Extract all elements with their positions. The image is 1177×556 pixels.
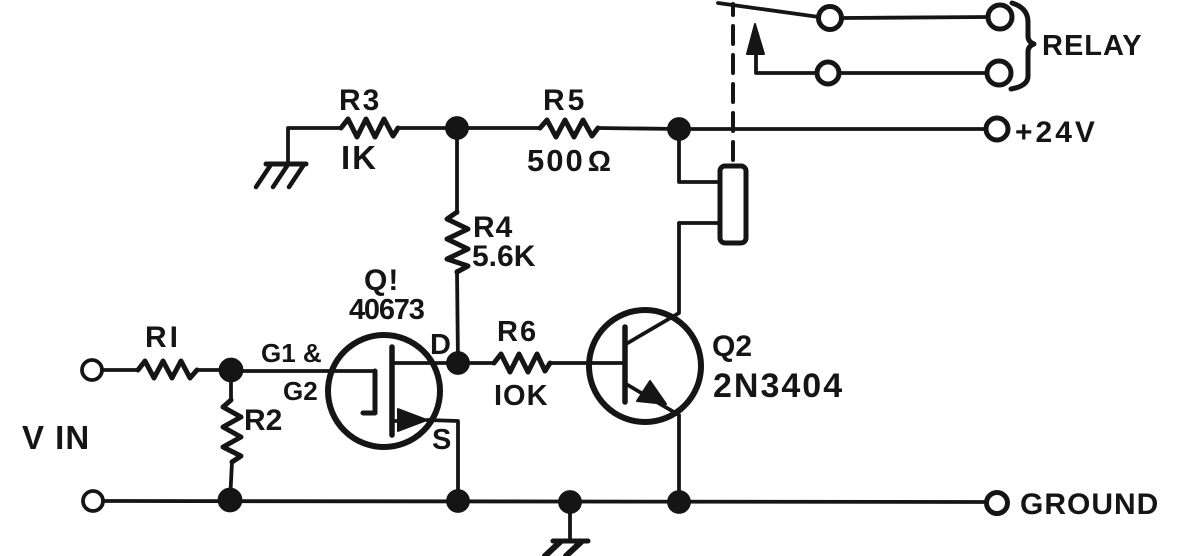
node H bottom rail Q2 emitter [669,492,689,512]
node D junction rail/coil [669,119,689,139]
svg-text:RELAY: RELAY [1042,30,1143,62]
svg-text:2N3404: 2N3404 [713,367,844,405]
svg-text:5.6K: 5.6K [472,240,536,273]
svg-text:G1 &: G1 & [261,338,322,368]
svg-text:IOK: IOK [494,380,549,412]
wire R4 lower lead to drain node [457,271,458,363]
svg-text:R5: R5 [543,84,587,117]
relay coil [720,166,746,243]
relay armature with arrow [756,50,817,73]
wire relay actuator dashed link [731,4,735,160]
node B junction R1/R2/gate [221,360,242,381]
resistor R2 [223,400,241,462]
transistor Q2 base bar [622,327,628,402]
terminal V IN lower [83,491,103,511]
svg-text:R6: R6 [497,316,538,348]
transistor Q2 emitter arrow [637,381,666,404]
node G bottom rail ground stub [560,492,580,512]
svg-text:Q2: Q2 [712,330,752,363]
svg-text:S: S [432,424,451,456]
transistor Q1 gate electrode [363,371,375,413]
transistor Q2 body circle [589,310,701,422]
svg-text:R3: R3 [339,84,381,117]
transistor Q1 body circle [328,335,440,447]
svg-text:500Ω: 500Ω [527,143,613,178]
resistor R4 [447,212,468,272]
svg-text:+24V: +24V [1015,116,1098,149]
ground (bottom chassis) [545,502,588,556]
svg-text:40673: 40673 [349,294,425,326]
wire R2 upper lead [229,370,233,400]
wire R1 to node [197,368,231,372]
wire R3 to node [398,126,457,130]
wire gate lead [231,369,375,373]
terminal V IN upper [82,360,102,380]
resistor R5 [540,120,598,137]
wire node to R5 [457,126,540,130]
wire bottom contact link [839,71,987,75]
wire Q2 collector [626,223,679,344]
svg-text:Q!: Q! [364,264,399,297]
wire R4 upper lead [455,128,459,213]
wire Q1 source lead [392,419,398,423]
relay switch arm [718,3,819,17]
resistor R6 [494,354,550,372]
terminal +24V [986,118,1008,140]
svg-text:IK: IK [341,139,378,176]
wire top rail left segment [288,128,341,163]
wire Q2 base lead [589,361,625,365]
svg-text:D: D [430,329,451,361]
resistor R3 [341,119,398,137]
transistor Q1 channel bar [389,347,395,435]
resistor R1 [138,361,197,378]
node C junction drain/R4/R6 [448,353,468,373]
wire node to R6 [458,361,494,365]
wire coil bottom stub [679,221,720,225]
relay brace [1011,3,1034,89]
wire Q1 drain lead [392,361,458,365]
node A junction R3/R4/R5 [447,118,467,138]
transistor Q1 source arrow [398,409,427,431]
node E bottom rail R2 [220,490,241,511]
wire top contact link [842,17,988,18]
wire Q2 emitter [626,384,679,501]
svg-text:V IN: V IN [22,419,90,456]
wire bottom rail [103,501,986,502]
wire coil top stub [679,129,720,182]
wire node to +24V terminal [679,127,986,131]
svg-text:GROUND: GROUND [1020,488,1159,521]
svg-text:RI: RI [145,321,181,354]
relay contact top-right [988,5,1012,29]
wire V IN to R1 [102,368,137,372]
svg-text:G2: G2 [283,376,318,406]
wire R6 to Q2 base [550,361,589,365]
relay contact bottom-left [817,62,839,84]
svg-text:R2: R2 [244,404,282,437]
ground (top-left chassis) [256,164,306,187]
relay contact top-left [819,7,842,30]
terminal GROUND [987,493,1008,514]
wire R5 to node [598,128,679,129]
relay contact bottom-right [987,61,1011,85]
wire R2 lower lead [230,462,232,501]
node F bottom rail Q1 source [448,491,468,511]
